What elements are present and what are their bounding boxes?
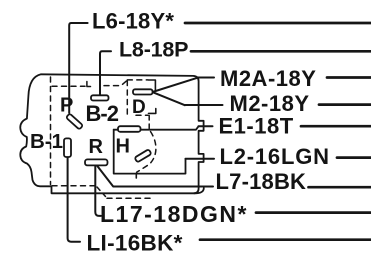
wire M2A-18Y diagonal from terminal D bbox=[153, 78, 198, 92]
wire M2A-18Y lead bbox=[198, 77, 214, 79]
dashed vertical between D box and H box bbox=[148, 116, 150, 130]
wire E1-18T lead through notch bbox=[199, 125, 213, 127]
svg-text:H: H bbox=[116, 136, 130, 158]
svg-text:L2-16LGN: L2-16LGN bbox=[220, 144, 330, 169]
trailing line L2-16LGN bbox=[337, 156, 371, 159]
svg-text:M2A-18Y: M2A-18Y bbox=[220, 66, 316, 91]
wire L7-18BK from terminal R bbox=[98, 166, 214, 186]
svg-text:D: D bbox=[132, 97, 146, 118]
inner dashed top line left of B-2 wire bbox=[52, 85, 85, 87]
terminal B-1 (vertical) bbox=[64, 138, 71, 157]
inner dashed bottom line lower part bbox=[107, 197, 150, 199]
H block box (left, bottom sides) bbox=[114, 130, 186, 174]
svg-text:B-1: B-1 bbox=[30, 130, 63, 153]
inner dashed top line right of B-2 wire bbox=[104, 81, 127, 86]
wire L6-18Y* to terminal P bbox=[69, 23, 87, 113]
terminal H (straight) bbox=[118, 126, 141, 132]
wire M2-18Y diagonal from terminal D bbox=[153, 92, 185, 105]
trailing line M2A-18Y bbox=[327, 76, 371, 79]
trailing line L8-18P bbox=[191, 50, 371, 53]
D box bottom-right solid corner bbox=[149, 109, 156, 114]
body bottom-right corner curl bbox=[194, 188, 204, 193]
connector body outline bbox=[20, 74, 203, 193]
svg-text:R: R bbox=[89, 136, 104, 158]
svg-text:P: P bbox=[60, 95, 73, 117]
inner dashed left vertical bbox=[50, 77, 52, 185]
svg-text:M2-18Y: M2-18Y bbox=[230, 91, 310, 116]
svg-text:LI-16BK*: LI-16BK* bbox=[87, 231, 183, 256]
terminal D bbox=[133, 89, 153, 94]
wire L8-18P to terminal B-2 bbox=[100, 51, 111, 95]
trailing line M2-18Y bbox=[319, 103, 371, 106]
terminal P (slanted) bbox=[66, 113, 83, 129]
terminal B-2 bbox=[91, 95, 109, 100]
dashed box around terminal D : left bbox=[126, 81, 128, 115]
svg-text:E1-18T: E1-18T bbox=[219, 114, 294, 139]
trailing line L7-18BK bbox=[309, 186, 371, 189]
svg-text:L17-18DGN*: L17-18DGN* bbox=[100, 201, 248, 227]
solid tick below H box bottom bbox=[135, 174, 137, 179]
dashed notch at B-2 wire bbox=[87, 82, 91, 87]
trailing line L17-18DGN* bbox=[256, 211, 371, 214]
trailing line LI-16BK* bbox=[200, 238, 371, 241]
D box bottom dashes bbox=[136, 114, 148, 116]
dashed arc right of H slant terminal bbox=[137, 132, 156, 173]
wire L2-16LGN lead from H block through notch bbox=[186, 158, 215, 160]
inner dashed bottom line left part bbox=[52, 185, 96, 187]
terminal H (slanted) bbox=[135, 149, 152, 162]
inner dashed bottom step bbox=[97, 187, 106, 197]
D box top-right solid corner bbox=[149, 80, 156, 91]
H block top edge merging into E1 wire bbox=[114, 126, 199, 129]
svg-text:L8-18P: L8-18P bbox=[119, 38, 188, 62]
svg-text:L7-18BK: L7-18BK bbox=[216, 169, 307, 194]
dashed box around terminal D : top bbox=[127, 79, 148, 81]
svg-text:B-2: B-2 bbox=[86, 101, 119, 126]
wire LI-16BK* from terminal B-1 bbox=[68, 158, 80, 242]
wire L17-18DGN* from terminal R bbox=[95, 166, 101, 216]
wire M2-18Y lead bbox=[185, 104, 223, 106]
terminal R bbox=[85, 159, 108, 165]
svg-text:L6-18Y*: L6-18Y* bbox=[92, 8, 174, 33]
trailing line E1-18T bbox=[301, 125, 371, 128]
trailing line L6-18Y* bbox=[185, 22, 371, 25]
